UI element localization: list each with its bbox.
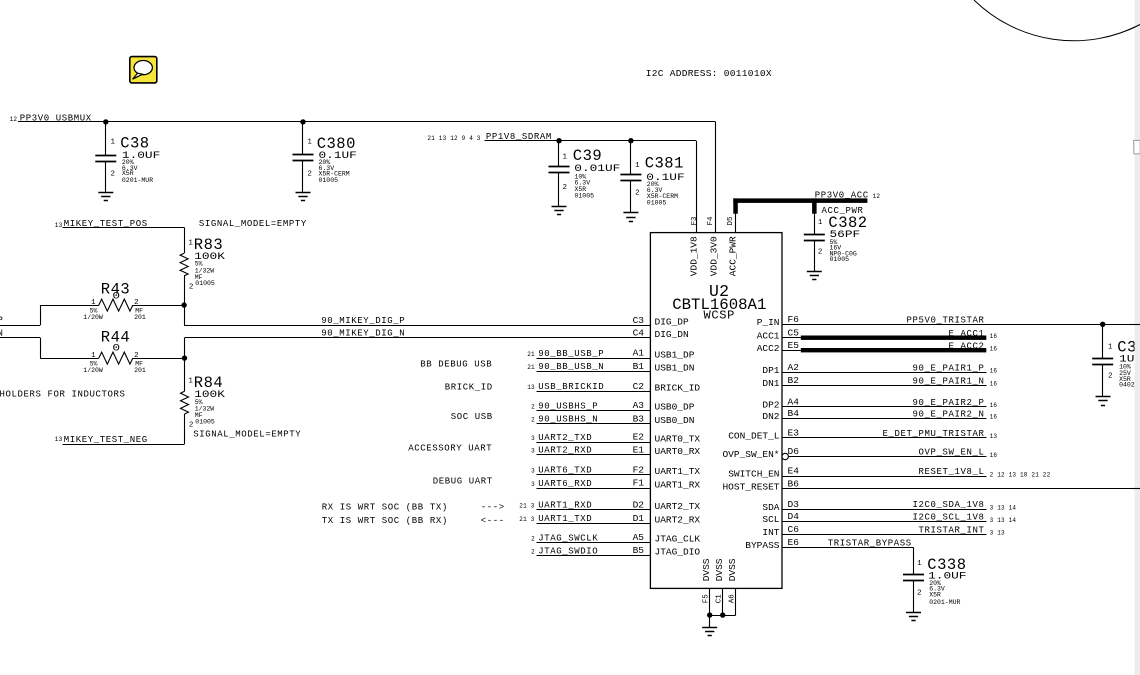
svg-text:90_E_PAIR1_N: 90_E_PAIR1_N bbox=[913, 376, 985, 386]
svg-text:ACCESSORY UART: ACCESSORY UART bbox=[408, 444, 492, 454]
net TRISTAR_BYPASS bbox=[782, 538, 914, 574]
net E_ACC1 (bus) bbox=[782, 329, 997, 340]
net RESET_1V8_L bbox=[782, 467, 1051, 478]
svg-text:A2: A2 bbox=[788, 362, 800, 373]
pin B4 DN2 (right) bbox=[762, 408, 799, 422]
svg-text:RX IS WRT SOC (BB TX): RX IS WRT SOC (BB TX) bbox=[322, 503, 448, 513]
svg-text:201: 201 bbox=[134, 314, 146, 321]
pin A5 JTAG_CLK (left) bbox=[633, 532, 701, 545]
pin B2 DN1 (right) bbox=[762, 375, 799, 389]
net 90_E_PAIR1_N bbox=[782, 376, 997, 387]
svg-text:16: 16 bbox=[990, 346, 998, 353]
svg-text:UART2_TXD: UART2_TXD bbox=[538, 433, 592, 443]
svg-text:2: 2 bbox=[134, 352, 139, 360]
svg-text:01005: 01005 bbox=[647, 199, 667, 206]
svg-text:C381: C381 bbox=[645, 154, 684, 172]
svg-text:USB0_DN: USB0_DN bbox=[655, 415, 695, 426]
svg-text:I2C0_SDA_1V8: I2C0_SDA_1V8 bbox=[913, 500, 985, 510]
svg-text:2: 2 bbox=[635, 190, 640, 198]
svg-text:DP1: DP1 bbox=[762, 365, 779, 376]
svg-text:DEBUG UART: DEBUG UART bbox=[433, 477, 493, 487]
note BRICK_ID bbox=[445, 383, 493, 393]
svg-text:1/20W: 1/20W bbox=[83, 314, 103, 321]
net I2C0_SDA_1V8 bbox=[782, 500, 1016, 511]
net UART2_RXD bbox=[531, 446, 650, 456]
svg-text:1: 1 bbox=[91, 352, 96, 360]
svg-text:VDD_3V0: VDD_3V0 bbox=[708, 236, 719, 276]
svg-text:DVSS: DVSS bbox=[727, 558, 738, 581]
junction R44/R84 bbox=[182, 338, 187, 361]
svg-text:1: 1 bbox=[635, 162, 640, 170]
svg-text:ACC1: ACC1 bbox=[757, 330, 780, 341]
svg-text:3 13: 3 13 bbox=[990, 530, 1005, 537]
svg-text:3 13 14: 3 13 14 bbox=[990, 504, 1017, 511]
svg-text:21: 21 bbox=[527, 351, 535, 358]
wire PP1V8_SDRAM horizontal bbox=[485, 140, 697, 142]
svg-text:01005: 01005 bbox=[830, 256, 850, 263]
pin A6 DVSS (bottom) bbox=[727, 558, 738, 603]
ground (C39) bbox=[552, 207, 567, 215]
svg-text:01005: 01005 bbox=[195, 280, 215, 287]
svg-text:16: 16 bbox=[990, 452, 998, 459]
svg-text:B1: B1 bbox=[633, 361, 645, 372]
capacitor C381 0.1UF bbox=[620, 141, 684, 213]
pin A1 USB1_DP (left) bbox=[633, 348, 695, 361]
svg-text:BRICK_ID: BRICK_ID bbox=[445, 383, 493, 393]
net 90_BB_USB_N bbox=[527, 362, 650, 372]
capacitor C382 56PF bbox=[804, 214, 868, 272]
svg-text:USB1_DN: USB1_DN bbox=[655, 362, 695, 373]
svg-text:CON_DET_L: CON_DET_L bbox=[728, 430, 780, 441]
svg-text:2: 2 bbox=[134, 299, 139, 307]
ground (C381) bbox=[623, 213, 638, 222]
pin D2 UART2_TX (left) bbox=[633, 499, 701, 512]
net 90_E_PAIR2_N bbox=[782, 410, 997, 421]
svg-text:2: 2 bbox=[189, 283, 194, 291]
pin C4 DIG_DN (left) bbox=[633, 328, 689, 341]
svg-text:E_DET_PMU_TRISTAR: E_DET_PMU_TRISTAR bbox=[883, 429, 985, 439]
resistor R83 100K bbox=[180, 236, 225, 305]
svg-text:OVP_SW_EN_L: OVP_SW_EN_L bbox=[919, 448, 985, 458]
svg-text:TRISTAR_BYPASS: TRISTAR_BYPASS bbox=[828, 538, 912, 548]
svg-text:UART0_TX: UART0_TX bbox=[655, 433, 701, 444]
svg-text:E6: E6 bbox=[788, 537, 800, 548]
note RX IS WRT SOC (BB TX) bbox=[322, 503, 505, 513]
svg-text:2: 2 bbox=[531, 403, 535, 410]
svg-text:SWITCH_EN: SWITCH_EN bbox=[728, 469, 779, 480]
svg-text:SIGNAL_MODEL=EMPTY: SIGNAL_MODEL=EMPTY bbox=[193, 429, 301, 439]
net PP5V0_TRISTAR bbox=[782, 315, 1140, 325]
pin D4 SCL (right) bbox=[762, 511, 799, 525]
svg-text:F2: F2 bbox=[633, 465, 645, 476]
svg-text:21: 21 bbox=[527, 364, 535, 371]
svg-text:SIGNAL_MODEL=EMPTY: SIGNAL_MODEL=EMPTY bbox=[199, 219, 307, 229]
pin E6 BYPASS (right) bbox=[745, 537, 799, 551]
net 90_E_PAIR1_P bbox=[782, 363, 997, 374]
wire DVSS A6 bbox=[710, 588, 736, 615]
svg-text:UART1_RX: UART1_RX bbox=[655, 479, 701, 490]
node N (left edge) bbox=[0, 328, 4, 338]
net UART2_TXD bbox=[531, 433, 650, 443]
svg-text:16: 16 bbox=[990, 402, 998, 409]
svg-text:D2: D2 bbox=[633, 499, 645, 510]
junction PP5V0_TRISTAR tap bbox=[1100, 322, 1105, 327]
svg-text:90_MIKEY_DIG_P: 90_MIKEY_DIG_P bbox=[321, 316, 405, 326]
ground (DVSS) bbox=[702, 615, 717, 635]
svg-text:2: 2 bbox=[563, 184, 568, 192]
svg-text:I2C ADDRESS: 0011010X: I2C ADDRESS: 0011010X bbox=[646, 68, 772, 79]
svg-text:0201-MUR: 0201-MUR bbox=[929, 599, 960, 606]
svg-text:16: 16 bbox=[990, 333, 998, 340]
pin bubble D6 (active low) bbox=[782, 453, 788, 459]
note HOLDERS FOR INDUCTORS bbox=[0, 390, 126, 400]
pin C2 BRICK_ID (left) bbox=[633, 381, 701, 394]
svg-text:90_BB_USB_P: 90_BB_USB_P bbox=[538, 349, 604, 359]
wire MIKEY_TEST_NEG bbox=[63, 444, 185, 446]
pin B1 USB1_DN (left) bbox=[633, 361, 695, 374]
svg-text:F4: F4 bbox=[707, 216, 715, 226]
svg-text:DP2: DP2 bbox=[762, 400, 779, 411]
pin A2 DP1 (right) bbox=[762, 362, 799, 376]
svg-text:UART0_RX: UART0_RX bbox=[655, 446, 701, 457]
wire DVSS C1 bbox=[722, 588, 724, 615]
node P (left edge) bbox=[0, 316, 4, 326]
svg-text:D5: D5 bbox=[727, 216, 735, 226]
svg-text:<---: <--- bbox=[481, 516, 505, 526]
svg-text:90_USBHS_P: 90_USBHS_P bbox=[538, 401, 598, 411]
svg-text:VDD_1V8: VDD_1V8 bbox=[689, 236, 700, 276]
pin E1 UART0_RX (left) bbox=[633, 445, 701, 458]
svg-text:0: 0 bbox=[112, 342, 120, 353]
svg-text:13: 13 bbox=[527, 384, 535, 391]
net 90_USBHS_N bbox=[531, 415, 650, 425]
svg-text:B5: B5 bbox=[633, 545, 645, 556]
svg-text:C6: C6 bbox=[788, 524, 800, 535]
junction R43/R83 bbox=[181, 302, 186, 325]
svg-text:UART2_RX: UART2_RX bbox=[655, 514, 701, 525]
svg-text:D1: D1 bbox=[633, 513, 645, 524]
wire P stub bbox=[0, 305, 41, 325]
svg-text:E_ACC2: E_ACC2 bbox=[949, 341, 985, 351]
net 90_USBHS_P bbox=[531, 401, 650, 411]
pin B5 JTAG_DIO (left) bbox=[633, 545, 701, 558]
net 90_MIKEY_DIG_N bbox=[185, 329, 651, 339]
svg-text:UART6_RXD: UART6_RXD bbox=[538, 479, 592, 489]
svg-text:MIKEY_TEST_NEG: MIKEY_TEST_NEG bbox=[64, 435, 148, 445]
svg-text:DVSS: DVSS bbox=[714, 558, 725, 581]
pin D5 ACC_PWR (top) bbox=[727, 216, 738, 276]
pin D6 OVP_SW_EN* (right) bbox=[722, 446, 799, 460]
svg-text:DVSS: DVSS bbox=[701, 558, 712, 581]
net 90_MIKEY_DIG_P bbox=[184, 316, 650, 326]
svg-text:B6: B6 bbox=[788, 478, 800, 489]
svg-text:01005: 01005 bbox=[319, 177, 339, 184]
svg-text:F3: F3 bbox=[691, 216, 699, 226]
svg-text:2: 2 bbox=[307, 170, 312, 178]
capacitor C38 1.0UF bbox=[95, 122, 160, 193]
svg-text:--->: ---> bbox=[481, 503, 505, 513]
svg-text:TX IS WRT SOC (BB RX): TX IS WRT SOC (BB RX) bbox=[322, 516, 448, 526]
svg-text:16: 16 bbox=[990, 381, 998, 388]
wire D5 pin to bus bbox=[735, 214, 737, 233]
wire PP1V8_SDRAM down to pin F3 bbox=[696, 141, 698, 233]
svg-text:2: 2 bbox=[111, 170, 116, 178]
pin B3 USB0_DN (left) bbox=[633, 413, 695, 426]
pin D1 UART2_RX (left) bbox=[633, 513, 701, 526]
svg-text:A1: A1 bbox=[633, 348, 645, 359]
svg-text:1: 1 bbox=[1108, 343, 1113, 351]
net I2C0_SCL_1V8 bbox=[782, 513, 1016, 524]
svg-text:TRISTAR_INT: TRISTAR_INT bbox=[919, 526, 985, 536]
svg-text:B3: B3 bbox=[633, 413, 645, 424]
svg-text:90_E_PAIR2_P: 90_E_PAIR2_P bbox=[913, 398, 985, 408]
pin C5 ACC1 (right) bbox=[757, 327, 800, 341]
svg-text:1: 1 bbox=[307, 139, 312, 147]
svg-text:D3: D3 bbox=[788, 499, 800, 510]
svg-text:C3: C3 bbox=[633, 315, 645, 326]
svg-text:12: 12 bbox=[10, 116, 18, 123]
ground (C338) bbox=[906, 613, 921, 621]
svg-text:PP3V0_ACC: PP3V0_ACC bbox=[815, 190, 869, 200]
svg-text:E2: E2 bbox=[633, 432, 645, 443]
svg-text:2: 2 bbox=[917, 589, 922, 597]
svg-text:UART2_TX: UART2_TX bbox=[655, 501, 701, 512]
pin F6 P_IN (right) bbox=[757, 314, 800, 328]
pin A4 DP2 (right) bbox=[762, 397, 799, 411]
wire MIKEY_TEST_POS bbox=[63, 227, 185, 253]
svg-text:UART1_TX: UART1_TX bbox=[655, 466, 701, 477]
svg-text:X5R: X5R bbox=[929, 592, 941, 599]
pin B6 HOST_RESET (right) bbox=[722, 478, 799, 492]
svg-text:1: 1 bbox=[111, 139, 116, 147]
svg-text:C2: C2 bbox=[633, 381, 645, 392]
net PP3V0_USBMUX label bbox=[10, 113, 92, 123]
svg-text:F1: F1 bbox=[633, 478, 645, 489]
note BB DEBUG USB bbox=[420, 360, 492, 370]
pin E5 ACC2 (right) bbox=[757, 340, 800, 354]
svg-text:C5: C5 bbox=[788, 327, 800, 338]
svg-text:D6: D6 bbox=[788, 446, 800, 457]
net OVP_SW_EN_L bbox=[788, 448, 997, 459]
svg-text:UART1_TXD: UART1_TXD bbox=[538, 514, 592, 524]
svg-text:B4: B4 bbox=[788, 408, 800, 419]
power net PP3V0_ACC (thick bus bar) bbox=[733, 190, 880, 213]
svg-text:DN2: DN2 bbox=[762, 411, 779, 422]
note SIGNAL_MODEL=EMPTY (R84) bbox=[193, 429, 301, 439]
resistor R84 100K bbox=[181, 358, 226, 444]
wire HOST_RESET (B6) long bbox=[782, 488, 1140, 490]
svg-text:21 3: 21 3 bbox=[519, 503, 534, 510]
svg-text:1/20W: 1/20W bbox=[83, 367, 103, 374]
pin C1 DVSS (bottom) bbox=[714, 558, 725, 603]
svg-text:3: 3 bbox=[531, 481, 535, 488]
svg-text:A5: A5 bbox=[633, 532, 645, 543]
net JTAG_SWCLK bbox=[531, 533, 650, 543]
net UART6_RXD bbox=[531, 479, 650, 489]
pin F5 DVSS (bottom) bbox=[701, 558, 712, 603]
svg-text:201: 201 bbox=[134, 367, 146, 374]
wire PP3V0_USBMUX down to pin F4 bbox=[715, 122, 717, 233]
svg-text:0: 0 bbox=[112, 291, 120, 302]
ground (C382) bbox=[807, 272, 822, 280]
svg-text:ACC_PWR: ACC_PWR bbox=[728, 236, 739, 276]
svg-text:HOLDERS FOR INDUCTORS: HOLDERS FOR INDUCTORS bbox=[0, 390, 126, 400]
net USB_BRICKID bbox=[527, 382, 650, 392]
svg-text:2: 2 bbox=[189, 422, 194, 430]
ground (C380) bbox=[296, 193, 311, 201]
svg-text:SCL: SCL bbox=[762, 514, 779, 525]
svg-text:13: 13 bbox=[55, 436, 63, 443]
svg-text:D4: D4 bbox=[788, 511, 800, 522]
svg-text:3: 3 bbox=[531, 448, 535, 455]
svg-text:P_IN: P_IN bbox=[757, 317, 780, 328]
resistor R44 0 ohm bbox=[40, 329, 184, 374]
svg-text:16: 16 bbox=[990, 368, 998, 375]
svg-text:01005: 01005 bbox=[575, 192, 595, 199]
svg-text:1: 1 bbox=[91, 299, 96, 307]
svg-text:2: 2 bbox=[531, 535, 535, 542]
svg-text:13: 13 bbox=[55, 222, 63, 229]
net JTAG_SWDIO bbox=[531, 546, 650, 556]
note SOC USB bbox=[451, 412, 493, 422]
svg-text:01005: 01005 bbox=[195, 418, 215, 425]
net MIKEY_TEST_POS label bbox=[55, 219, 148, 229]
capacitor C338 1.0UF bbox=[903, 556, 967, 612]
note SIGNAL_MODEL=EMPTY (R83) bbox=[199, 219, 307, 229]
svg-text:N: N bbox=[0, 328, 4, 338]
net MIKEY_TEST_NEG label bbox=[55, 435, 148, 445]
pin E2 UART0_TX (left) bbox=[633, 432, 701, 445]
net E_ACC2 (bus) bbox=[782, 341, 997, 352]
wire DVSS F5 bbox=[709, 588, 711, 615]
annotation circle arc bbox=[974, 0, 1140, 41]
svg-text:C4: C4 bbox=[633, 328, 645, 339]
resistor R43 0 ohm bbox=[40, 280, 184, 321]
svg-text:B2: B2 bbox=[788, 375, 800, 386]
svg-text:USB0_DP: USB0_DP bbox=[655, 402, 695, 413]
net UART1_RXD bbox=[519, 501, 650, 511]
junction C39 tap bbox=[556, 138, 561, 143]
svg-text:0201-MUR: 0201-MUR bbox=[122, 177, 153, 184]
note I2C ADDRESS bbox=[646, 68, 772, 79]
svg-text:E3: E3 bbox=[788, 427, 800, 438]
svg-text:X5R: X5R bbox=[122, 170, 134, 177]
junction C380 tap bbox=[300, 119, 305, 124]
capacitor C337 1UF (clipped at page edge) bbox=[1092, 324, 1140, 396]
svg-text:BYPASS: BYPASS bbox=[745, 540, 780, 551]
svg-text:JTAG_CLK: JTAG_CLK bbox=[655, 534, 701, 545]
net TRISTAR_INT bbox=[782, 526, 1005, 537]
svg-text:OVP_SW_EN*: OVP_SW_EN* bbox=[722, 449, 779, 460]
svg-text:90_E_PAIR1_P: 90_E_PAIR1_P bbox=[913, 363, 985, 373]
svg-text:2: 2 bbox=[1108, 373, 1113, 381]
page-edge marker box bbox=[1134, 140, 1140, 153]
junction C38 tap bbox=[103, 119, 108, 124]
svg-text:16: 16 bbox=[990, 414, 998, 421]
note DEBUG UART bbox=[433, 477, 493, 487]
note icon (yellow comment balloon) bbox=[130, 57, 157, 83]
svg-text:HOST_RESET: HOST_RESET bbox=[722, 481, 779, 492]
capacitor C380 0.1UF bbox=[293, 122, 357, 193]
svg-text:E_ACC1: E_ACC1 bbox=[949, 329, 985, 339]
svg-text:1: 1 bbox=[188, 378, 193, 386]
svg-text:3: 3 bbox=[531, 468, 535, 475]
pin C3 DIG_DP (left) bbox=[633, 315, 689, 328]
svg-text:JTAG_SWCLK: JTAG_SWCLK bbox=[538, 533, 598, 543]
pin E4 SWITCH_EN (right) bbox=[728, 466, 799, 480]
ground (C38) bbox=[98, 193, 113, 201]
pin F3 VDD_1V8 (top) bbox=[689, 216, 700, 276]
svg-text:A3: A3 bbox=[633, 400, 645, 411]
svg-text:1: 1 bbox=[917, 560, 922, 568]
svg-text:1: 1 bbox=[563, 154, 568, 162]
wire N stub bbox=[0, 338, 41, 359]
net PP1V8_SDRAM label bbox=[427, 132, 552, 142]
svg-text:13: 13 bbox=[990, 433, 998, 440]
net UART1_TXD bbox=[519, 514, 650, 524]
svg-text:DIG_DP: DIG_DP bbox=[655, 316, 690, 327]
svg-text:WCSP: WCSP bbox=[704, 308, 736, 322]
junction DVSS C1 bbox=[720, 612, 725, 617]
net UART6_TXD bbox=[531, 466, 650, 476]
svg-text:2: 2 bbox=[531, 417, 535, 424]
svg-text:F6: F6 bbox=[788, 314, 800, 325]
pin D3 SDA (right) bbox=[762, 499, 799, 513]
wire PP3V0_USBMUX horizontal bbox=[18, 121, 716, 123]
svg-text:BB DEBUG USB: BB DEBUG USB bbox=[420, 360, 492, 370]
svg-text:1: 1 bbox=[818, 219, 823, 227]
svg-text:I2C0_SCL_1V8: I2C0_SCL_1V8 bbox=[913, 513, 985, 523]
pin F4 VDD_3V0 (top) bbox=[707, 216, 719, 276]
svg-text:1: 1 bbox=[188, 239, 193, 247]
svg-text:90_E_PAIR2_N: 90_E_PAIR2_N bbox=[913, 410, 985, 420]
svg-text:21 3: 21 3 bbox=[519, 516, 534, 523]
note ACCESSORY UART bbox=[408, 444, 492, 454]
svg-text:2: 2 bbox=[818, 249, 823, 257]
svg-text:JTAG_SWDIO: JTAG_SWDIO bbox=[538, 546, 598, 556]
svg-text:INT: INT bbox=[762, 527, 779, 538]
svg-text:E5: E5 bbox=[788, 340, 800, 351]
svg-text:E4: E4 bbox=[788, 466, 800, 477]
svg-text:21 13 12 9 4 3: 21 13 12 9 4 3 bbox=[427, 135, 480, 142]
note TX IS WRT SOC (BB RX) bbox=[322, 516, 505, 526]
svg-text:DN1: DN1 bbox=[762, 378, 779, 389]
svg-text:USB1_DP: USB1_DP bbox=[655, 349, 695, 360]
pin E3 CON_DET_L (right) bbox=[728, 427, 799, 441]
svg-text:PP5V0_TRISTAR: PP5V0_TRISTAR bbox=[907, 315, 985, 325]
net ACC_PWR label bbox=[822, 206, 864, 216]
net E_DET_PMU_TRISTAR bbox=[782, 429, 997, 440]
svg-text:RESET_1V8_L: RESET_1V8_L bbox=[919, 467, 985, 477]
op-amp/IC U2 CBTL1608A1 body bbox=[650, 233, 782, 589]
svg-text:2 12 13 18 21 22: 2 12 13 18 21 22 bbox=[990, 471, 1051, 478]
svg-text:SDA: SDA bbox=[762, 502, 779, 513]
capacitor C39 0.01UF bbox=[549, 141, 621, 206]
junction C381 tap bbox=[628, 138, 633, 143]
pin A3 USB0_DP (left) bbox=[633, 400, 695, 413]
svg-text:DIG_DN: DIG_DN bbox=[655, 329, 689, 340]
net 90_E_PAIR2_P bbox=[782, 398, 997, 409]
svg-text:3 13 14: 3 13 14 bbox=[990, 517, 1017, 524]
pin F1 UART1_RX (left) bbox=[633, 478, 701, 491]
svg-text:2: 2 bbox=[531, 548, 535, 555]
svg-text:3: 3 bbox=[531, 435, 535, 442]
net 90_BB_USB_P bbox=[527, 349, 650, 359]
svg-text:P: P bbox=[0, 316, 4, 326]
svg-text:C39: C39 bbox=[573, 147, 602, 165]
pin C6 INT (right) bbox=[762, 524, 799, 538]
svg-text:12: 12 bbox=[873, 193, 881, 200]
